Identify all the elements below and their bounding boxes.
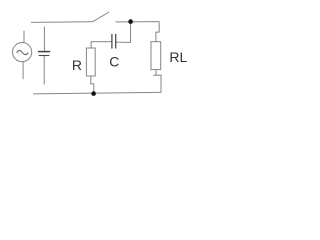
wire capacitor C2 bottom lead [43,56,45,84]
wire resistor RL bottom lead [155,70,157,76]
wire AC source bottom lead [22,62,24,79]
svg-text:R: R [72,57,82,73]
AC source sine symbol [17,50,29,54]
node B junction dot [91,91,96,96]
switch S1 blade (open) [93,12,110,22]
wire jog under RL [153,74,161,76]
wire bottom horizontal [33,92,161,94]
node A junction dot [128,19,133,24]
wire node A to resistor RL top [156,22,159,42]
wire capacitor C2 top lead [43,27,45,51]
capacitor C2 bottom plate [39,55,50,57]
resistor R body [86,48,95,76]
svg-text:C: C [109,54,119,70]
wire capacitor C left plate to resistor R top [91,42,112,48]
capacitor C2 top plate [38,51,50,53]
wire resistor R bottom to node B [91,76,94,92]
wire node A down to capacitor C right plate [116,22,131,43]
AC source V1 circle [13,43,32,62]
capacitor C right plate [115,34,117,49]
svg-text:RL: RL [169,49,187,65]
wire switch right contact to node A [115,21,159,23]
capacitor C left plate [111,34,113,49]
wire AC source top lead [23,31,25,43]
wire RL down to bottom wire [160,75,162,92]
wire top horizontal from source side to switch [31,21,93,24]
resistor RL body [151,42,161,70]
